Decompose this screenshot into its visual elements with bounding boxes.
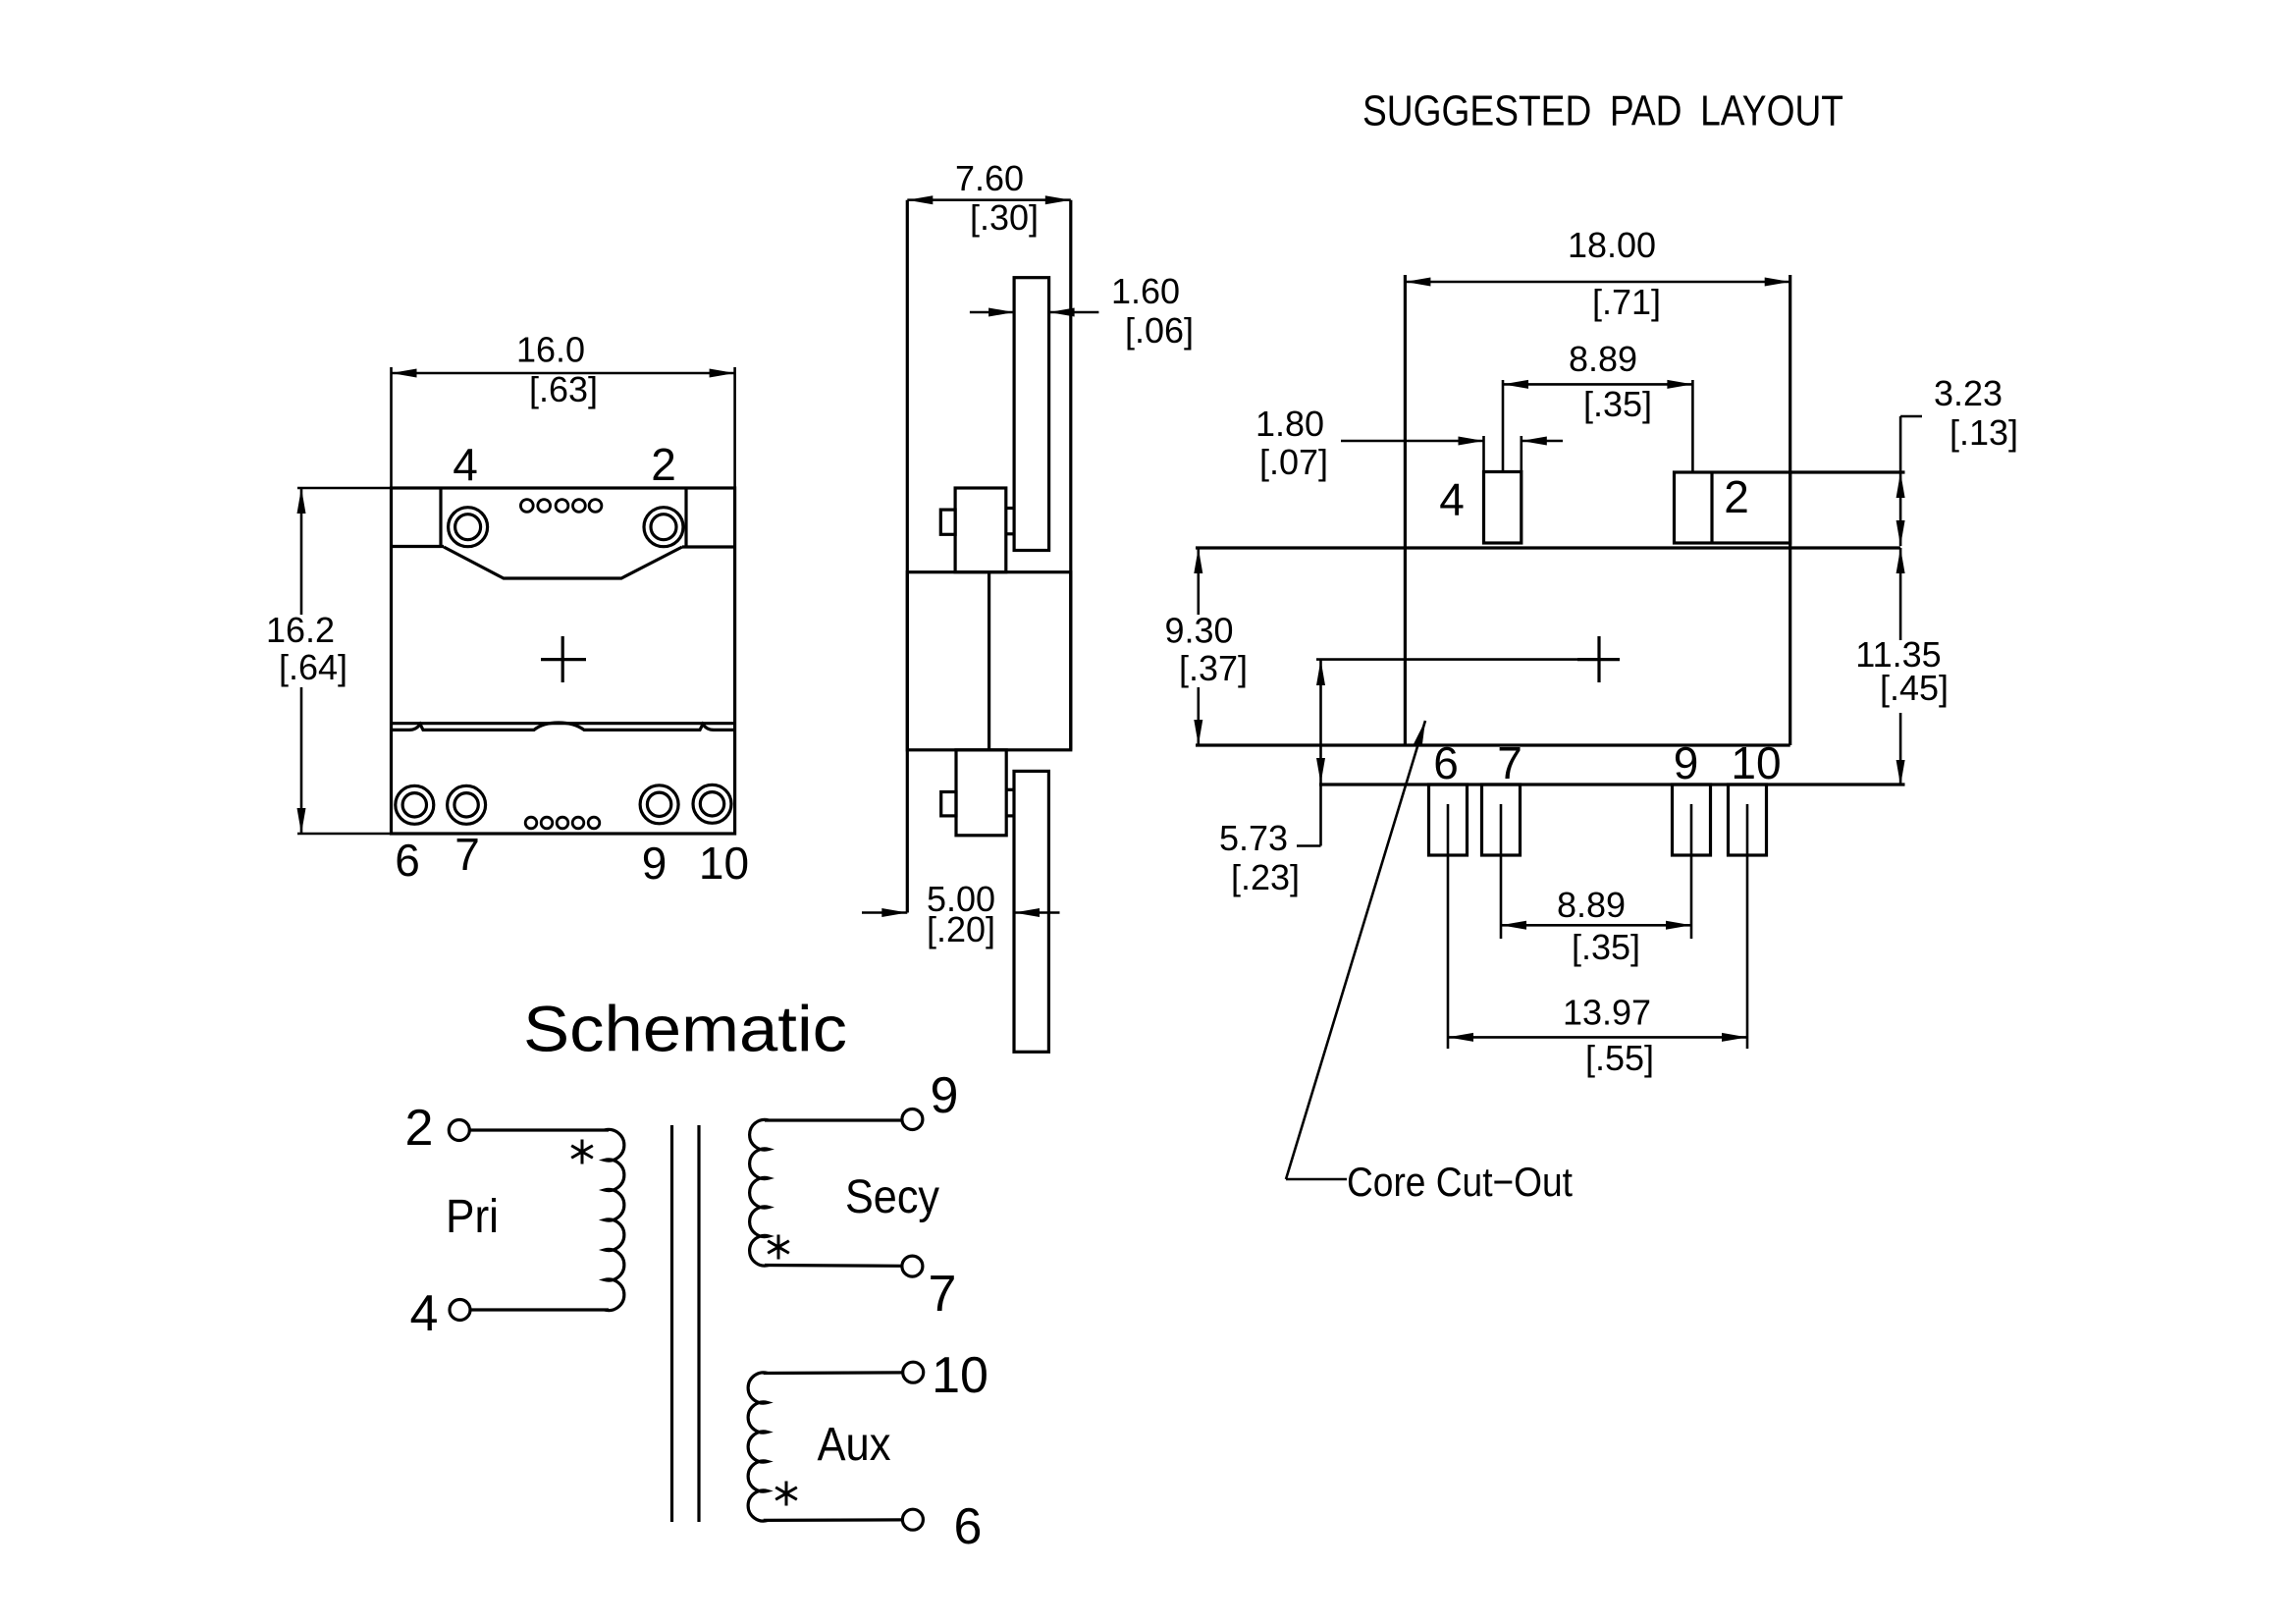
dimension [.35] bottom value label: [1572, 927, 1640, 967]
svg-text:[.71]: [.71]: [1592, 282, 1661, 322]
pad 9 (SMT pad): [1673, 785, 1711, 855]
dimension 5.00 value label: [927, 879, 995, 919]
schematic title: [523, 992, 847, 1064]
pad 2 label (pad layout): [1724, 471, 1749, 522]
pin 6 label (top view): [395, 835, 420, 886]
dimension 7.60 value label: [955, 158, 1024, 198]
dimension 5.73 value label: [1219, 818, 1288, 858]
dimension 5.73 [.23]: dimension line with arrows and leader: [1297, 660, 1325, 846]
pin 10 terminal circle (top view): [693, 785, 731, 823]
transformer T1 secondary winding (Secy): [750, 1119, 770, 1266]
pin 4 terminal circle (top view): [449, 508, 488, 547]
dimension 3.23 [.13]: dimension line with tick and arrows: [1896, 416, 1922, 546]
dimension [.30] value label: [970, 197, 1039, 238]
pin 10 center line: [1746, 804, 1749, 1049]
svg-text:8.89: 8.89: [1569, 339, 1637, 379]
wire: auxiliary winding to terminal 10: [764, 1371, 903, 1375]
wire: auxiliary winding to terminal 6: [764, 1518, 903, 1522]
pin 6 terminal circle (top view): [396, 785, 434, 824]
svg-text:Aux: Aux: [818, 1419, 891, 1471]
pin 9 terminal circle (top view): [640, 785, 678, 824]
pad 4 (SMT pad): [1484, 472, 1522, 544]
dimension 16.2 [.64] height: dimension line with arrows: [297, 488, 306, 834]
dimension 1.80 value label: [1255, 404, 1324, 444]
svg-text:[.23]: [.23]: [1231, 857, 1300, 897]
dimension 1.60 [.06]: leader arrows: [970, 308, 1099, 317]
pad 7 (SMT pad): [1482, 785, 1521, 855]
svg-text:7: 7: [1497, 737, 1522, 788]
svg-text:2: 2: [405, 1100, 434, 1157]
pin 7 terminal circle (top view): [448, 785, 486, 824]
side view: lower bobbin nub: [941, 792, 956, 816]
top view: lower flange top edge with clip notches: [392, 723, 735, 730]
dimension 9.30 value label: [1164, 611, 1233, 651]
pin 4 label (top view): [453, 439, 478, 490]
pad 6 (SMT pad): [1429, 785, 1468, 855]
side view: upper bobbin tube: [955, 488, 1006, 572]
svg-text:6: 6: [1433, 737, 1459, 788]
svg-text:10: 10: [932, 1347, 988, 1404]
dimension 5.00 [.20]: leader arrows: [862, 908, 1060, 917]
primary polarity dot (asterisk): [571, 1140, 593, 1164]
terminal 4 circle: [450, 1300, 470, 1321]
dimension 13.97 [.55]: dimension line with arrows: [1448, 1033, 1747, 1042]
wire: terminal 2 to primary winding: [469, 1128, 609, 1131]
top view: package body outline: [392, 488, 735, 834]
transformer T1 core lines: [672, 1125, 700, 1522]
pad layout: body courtyard right edge / extension line: [1789, 275, 1791, 745]
pin 4 label (schematic): [410, 1285, 439, 1342]
wire: secondary winding to terminal 9: [765, 1118, 902, 1121]
svg-text:16.0: 16.0: [516, 330, 585, 370]
top view: flange shoulder line left: [392, 545, 445, 548]
dimension 8.89 top value label: [1569, 339, 1637, 379]
svg-text:[.64]: [.64]: [279, 647, 347, 687]
svg-text:Pri: Pri: [446, 1191, 499, 1243]
pad 4 label (pad layout): [1439, 474, 1465, 525]
svg-text:16.2: 16.2: [266, 610, 335, 650]
svg-text:[.06]: [.06]: [1125, 310, 1194, 351]
terminal 9 circle: [902, 1110, 923, 1130]
dimension 16.0 value label: [516, 330, 585, 370]
wire: terminal 4 to primary winding: [470, 1308, 609, 1311]
svg-text:[.37]: [.37]: [1179, 648, 1248, 688]
svg-text:9: 9: [931, 1067, 959, 1124]
dimension [.23] value label: [1231, 857, 1300, 897]
svg-text:[.35]: [.35]: [1572, 927, 1640, 967]
svg-text:13.97: 13.97: [1563, 993, 1651, 1033]
svg-text:1.80: 1.80: [1255, 404, 1324, 444]
dimension 13.97 value label: [1563, 993, 1651, 1033]
secondary winding label Secy: [845, 1171, 939, 1223]
dimension 7.60 [.30]: dimension line with arrows: [907, 195, 1071, 204]
dimension 16.2 value label: [266, 610, 335, 650]
terminal 6 circle: [902, 1509, 923, 1530]
top view: flange shoulder line right: [682, 545, 735, 548]
side view: core block: [907, 572, 1071, 750]
pin 2 label (top view): [651, 439, 676, 490]
svg-text:4: 4: [453, 439, 478, 490]
dimension 18.00 [.71]: dimension line with arrows: [1405, 278, 1789, 287]
pin 6 center line: [1447, 804, 1450, 1049]
svg-text:4: 4: [1439, 474, 1465, 525]
pin 9 label (pad layout): [1674, 737, 1699, 788]
svg-text:SUGGESTED PAD LAYOUT: SUGGESTED PAD LAYOUT: [1362, 87, 1843, 135]
pad layout: body bottom line with left extension: [1196, 743, 1790, 746]
pad layout: body courtyard left edge / extension line: [1404, 275, 1407, 745]
dimension 16.2 [.64] height: extension lines: [297, 488, 392, 834]
dimension 16.0 [.63] width: extension lines: [392, 367, 735, 488]
auxiliary polarity dot (asterisk): [775, 1482, 797, 1506]
svg-text:Schematic: Schematic: [523, 992, 847, 1064]
top view: vent holes lower row: [525, 817, 600, 829]
pin 10 label (pad layout): [1731, 737, 1781, 788]
svg-text:5.73: 5.73: [1219, 818, 1288, 858]
core cut-out annotation label: [1347, 1159, 1573, 1205]
pad layout: pad top line for pins 6 7 9 10 with extensions: [1319, 783, 1905, 785]
svg-text:10: 10: [699, 838, 749, 889]
auxiliary winding label Aux: [818, 1419, 891, 1471]
dimension [.55] value label: [1585, 1038, 1654, 1078]
side view: right profile edge / extension line: [1069, 200, 1072, 750]
transformer T1 primary winding (Pri): [605, 1129, 624, 1310]
dimension 3.23 value label: [1934, 373, 2002, 413]
top view: vent holes upper row: [520, 500, 602, 513]
dimension 1.60 value label: [1111, 271, 1180, 311]
dimension [.45] value label: [1880, 668, 1949, 708]
pin 7 label (schematic): [929, 1266, 957, 1323]
svg-text:7: 7: [929, 1266, 957, 1323]
pin 9 label (top view): [642, 838, 667, 889]
svg-text:Secy: Secy: [845, 1171, 939, 1223]
dimension 8.89 [.35] top: extension lines: [1503, 380, 1692, 472]
dimension [.13] value label: [1949, 412, 2018, 453]
wire: secondary winding to terminal 7: [765, 1264, 902, 1268]
side view: left profile edge / extension line: [906, 200, 909, 913]
svg-text:Core Cut−Out: Core Cut−Out: [1347, 1159, 1573, 1205]
side view: upper pin exit ticks: [1006, 509, 1014, 534]
pad 2 (SMT pad) with label box: [1675, 472, 1790, 543]
pin 6 label (schematic): [954, 1498, 983, 1555]
dimension [.63] value label: [529, 369, 598, 409]
secondary polarity dot (asterisk): [768, 1235, 789, 1260]
dimension [.20] value label: [927, 909, 995, 949]
pin 10 label (schematic): [932, 1347, 988, 1404]
dimension 1.80 [.07]: leader arrows: [1341, 437, 1563, 446]
dimension 11.35 value label: [1855, 634, 1941, 675]
svg-text:2: 2: [1724, 471, 1749, 522]
pad 10 (SMT pad): [1729, 785, 1767, 855]
top view: core/flange parting line: [392, 722, 735, 725]
svg-text:10: 10: [1731, 737, 1781, 788]
svg-text:6: 6: [954, 1498, 983, 1555]
dimension [.37] value label: [1179, 648, 1248, 688]
svg-text:[.55]: [.55]: [1585, 1038, 1654, 1078]
svg-text:[.45]: [.45]: [1880, 668, 1949, 708]
svg-text:4: 4: [410, 1285, 439, 1342]
dimension 18.00 value label: [1568, 225, 1656, 265]
dimension 11.35 [.45]: dimension line with arrows: [1896, 548, 1905, 785]
terminal 10 circle: [903, 1362, 924, 1382]
svg-text:3.23: 3.23: [1934, 373, 2002, 413]
svg-text:[.13]: [.13]: [1949, 412, 2018, 453]
svg-text:9.30: 9.30: [1164, 611, 1233, 651]
side view: core center parting line: [988, 572, 990, 750]
side view: upper bobbin nub: [940, 510, 955, 534]
dimension 8.89 bottom value label: [1557, 885, 1626, 925]
svg-text:9: 9: [1674, 737, 1699, 788]
dimension 16.0 [.63] width: dimension line with arrows: [392, 369, 735, 378]
pin 10 label (top view): [699, 838, 749, 889]
dimension [.35] top value label: [1583, 384, 1652, 424]
pin 2 terminal circle (top view): [644, 508, 683, 547]
svg-text:2: 2: [651, 439, 676, 490]
pad layout: pad 2 top edge extension to dimension 3.23: [1790, 470, 1905, 473]
svg-text:[.35]: [.35]: [1583, 384, 1652, 424]
dimension [.71] value label: [1592, 282, 1661, 322]
pin 9 center line: [1690, 804, 1693, 939]
pad layout title: [1362, 87, 1843, 135]
terminal 2 circle: [449, 1120, 469, 1141]
svg-text:[.30]: [.30]: [970, 197, 1039, 238]
side view: lower SMT lead plate: [1014, 771, 1048, 1052]
terminal 7 circle: [902, 1256, 923, 1276]
svg-text:7: 7: [454, 829, 480, 880]
pin 6 label (pad layout): [1433, 737, 1459, 788]
pad 4 edge extension lines for dimension 1.80: [1484, 436, 1522, 472]
dimension [.07] value label: [1259, 442, 1328, 482]
side view: upper SMT lead plate: [1014, 278, 1049, 551]
svg-text:7.60: 7.60: [955, 158, 1024, 198]
transformer T1 auxiliary winding (Aux): [748, 1373, 768, 1521]
svg-text:[.20]: [.20]: [927, 909, 995, 949]
core cut-out leader line with arrow: [1286, 721, 1425, 1179]
dimension 8.89 [.35] bottom: dimension line with arrows: [1501, 921, 1691, 930]
pin 7 center line: [1500, 804, 1503, 939]
dimension 8.89 [.35] top: dimension line with arrows: [1503, 380, 1692, 389]
svg-text:18.00: 18.00: [1568, 225, 1656, 265]
svg-text:[.07]: [.07]: [1259, 442, 1328, 482]
dimension 9.30 [.37]: dimension line with arrows: [1194, 548, 1202, 745]
side view: lower pin exit ticks: [1006, 789, 1014, 816]
pad layout: centerline to dimension 5.73: [1316, 658, 1577, 661]
dimension [.64] value label: [279, 647, 347, 687]
primary winding label Pri: [446, 1191, 499, 1243]
pin 2 label (schematic): [405, 1100, 434, 1157]
svg-text:6: 6: [395, 835, 420, 886]
pad layout: center mark cross: [1577, 636, 1620, 682]
svg-text:9: 9: [642, 838, 667, 889]
side view: lower bobbin tube: [956, 750, 1006, 836]
pad layout: body top line with side extensions: [1196, 546, 1900, 549]
top view: bobbin chamfer contour: [444, 547, 682, 578]
pin 7 label (pad layout): [1497, 737, 1522, 788]
svg-text:[.63]: [.63]: [529, 369, 598, 409]
top view: center mark cross: [541, 636, 586, 682]
dimension [.06] value label: [1125, 310, 1194, 351]
top view: upper bobbin flange box: [441, 488, 686, 547]
svg-text:1.60: 1.60: [1111, 271, 1180, 311]
pin 9 label (schematic): [931, 1067, 959, 1124]
svg-text:8.89: 8.89: [1557, 885, 1626, 925]
pin 7 label (top view): [454, 829, 480, 880]
